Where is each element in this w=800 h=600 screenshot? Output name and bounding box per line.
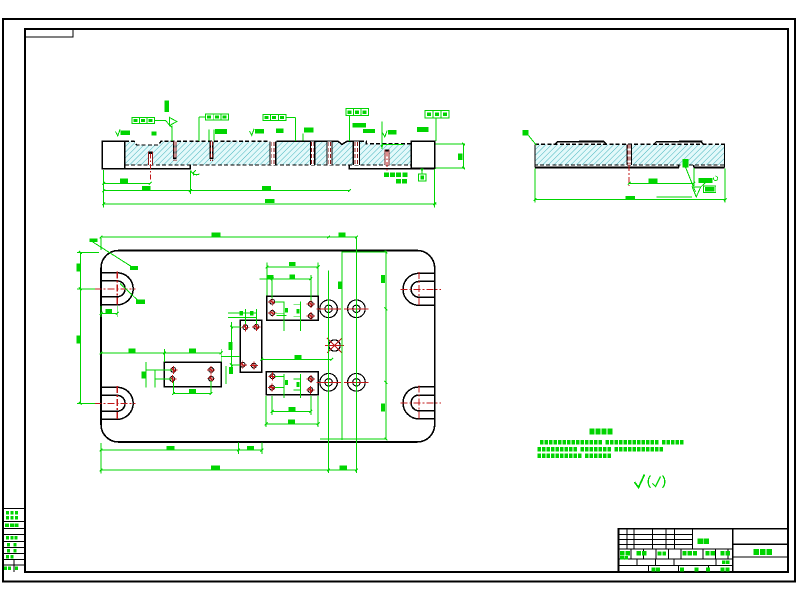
slot B2 from bottom with centerline — [384, 149, 389, 176]
height dim right of front view — [436, 143, 466, 170]
side view datum label on body — [683, 159, 696, 192]
U-slot bottom-left — [95, 386, 136, 421]
GDT frame A with leader and datum flag — [132, 101, 177, 142]
slot S4 full-height — [353, 141, 361, 165]
title block — [619, 529, 789, 572]
notes line 2 — [538, 447, 664, 452]
slot B1 from bottom with centerline — [148, 152, 153, 182]
slot T2 from top — [210, 141, 214, 161]
GDT frame D with leader — [346, 109, 369, 141]
block 1 dims — [260, 262, 320, 301]
slot S3 full-height — [326, 141, 332, 165]
dim below top-left U-slot — [100, 306, 119, 317]
block 4 bottom-middle — [266, 372, 318, 395]
bolt circle top 1 — [316, 297, 341, 322]
dim d3 overall length — [102, 169, 436, 208]
tiny dim t5 — [353, 123, 376, 133]
front view right end block — [411, 141, 434, 168]
finish mark v3 — [383, 130, 397, 137]
side view overall dim — [534, 169, 727, 203]
block 4 inner dims — [275, 374, 300, 398]
corner radius leader top-left — [93, 242, 146, 304]
side view raised tab 1 — [555, 141, 607, 145]
side view M leader top-left — [522, 130, 536, 145]
bolt circle bottom 2 — [344, 370, 369, 395]
side view dim s1 — [628, 168, 695, 186]
U-slot bottom-right — [401, 385, 442, 420]
bottom dim B overall — [100, 465, 358, 471]
top-left reference box — [25, 29, 73, 37]
GDT frame C with leader — [263, 114, 296, 141]
slot S2 full-height — [310, 141, 315, 165]
dim d1 40 — [102, 170, 151, 187]
hook symbol at left foot step — [191, 170, 200, 175]
tiny dim t3 — [276, 129, 283, 133]
block 1 inner hole-spacing dims — [275, 302, 301, 332]
label 2-phi10H7 below right part — [384, 173, 407, 184]
block 2 top dims — [228, 309, 257, 324]
technical notes title — [590, 429, 613, 435]
side section view hatched body — [535, 144, 725, 165]
vertical dim left of tall block — [228, 322, 241, 368]
block 1 top-middle — [267, 296, 318, 320]
notes line 3 — [538, 453, 612, 458]
top view plate outline rounded rect — [101, 251, 435, 443]
side view bottom outline with feet — [535, 144, 725, 167]
front view right foot bottom line — [349, 165, 434, 169]
side view raised tab 2 — [654, 141, 704, 145]
dim tall block to X-circle — [261, 355, 334, 361]
U-slot top-right — [401, 272, 442, 307]
finish mark big check — [635, 475, 665, 488]
finish mark v2 — [250, 129, 264, 136]
side view finish symbol and labels — [657, 176, 718, 197]
block 3 dims — [100, 349, 223, 395]
GDT frame E with leader — [425, 111, 449, 142]
finish mark v1 — [116, 129, 131, 136]
block 4 lower dims — [265, 396, 320, 427]
left margin title strip table — [3, 509, 25, 573]
block 3 left — [164, 362, 221, 387]
tiny dim t1 — [151, 132, 156, 136]
top dim line of plan view — [90, 232, 358, 250]
notes line 1 — [540, 440, 684, 445]
left vertical dim lines of plan view — [76, 251, 99, 405]
tiny dim t6 — [417, 127, 429, 132]
bottom dim A chained — [100, 443, 264, 474]
slot T1 from top — [173, 141, 177, 161]
U-slot top-left — [95, 271, 136, 306]
front section view: hatched plate body — [125, 141, 411, 165]
slot S1 full-height — [269, 141, 276, 165]
GDT frame B with leader — [199, 114, 229, 141]
leader to bottom slot B2 — [381, 122, 403, 150]
block 2 tall center — [239, 320, 262, 372]
datum flag B below right block — [418, 169, 426, 182]
side view slot with red centerline — [626, 144, 632, 186]
tiny dim t4 — [303, 128, 314, 141]
front view left foot bottom line — [102, 165, 190, 169]
front view left end block — [102, 141, 125, 169]
center hole with X cross — [325, 338, 344, 353]
dim d2 chained — [102, 171, 350, 195]
long extension verticals through plan view — [320, 238, 387, 474]
dim between block3 and tall block — [222, 357, 241, 384]
bolt circle top 2 — [344, 297, 369, 322]
tiny dim arrows t2 — [209, 129, 227, 140]
bolt circle bottom 1 — [316, 370, 341, 395]
